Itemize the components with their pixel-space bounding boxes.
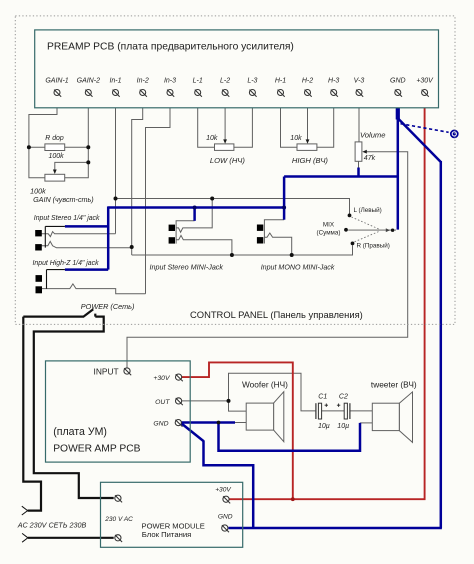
speaker Woofer horn: [274, 392, 284, 442]
arrow mix tie into blue wire: [348, 229, 396, 231]
power amp PCB box: [46, 361, 191, 462]
svg-text:HIGH (ВЧ): HIGH (ВЧ): [292, 156, 329, 165]
junction dot mini jack B on R line: [230, 253, 234, 257]
svg-text:+30V: +30V: [153, 375, 171, 382]
svg-text:AC 230V СЕТЬ 230В: AC 230V СЕТЬ 230В: [17, 520, 87, 529]
svg-text:C2: C2: [339, 393, 348, 400]
wire blue stereo jack riser: [107, 206, 110, 269]
junction dot amp GND branch: [217, 421, 221, 425]
svg-text:PREAMP PCB (плата предваритель: PREAMP PCB (плата предварительного усили…: [47, 42, 294, 53]
svg-text:10µ: 10µ: [318, 423, 330, 430]
terminal L-1: [195, 90, 202, 97]
switch blade POWER: [84, 309, 94, 316]
svg-text:+30V: +30V: [416, 78, 434, 85]
svg-text:47k: 47k: [364, 155, 376, 162]
svg-text:Input Stereo 1/4" jack: Input Stereo 1/4" jack: [34, 215, 100, 222]
terminal +30V amp: [176, 374, 183, 381]
wire blue right side vertical: [440, 161, 443, 528]
junction dot In-2 contact B: [130, 245, 134, 249]
wire AC switch left pole: [23, 316, 84, 318]
wire blue GND preamp vertical: [397, 95, 400, 230]
potentiometer GAIN 100k: [45, 174, 65, 181]
wire In-1 down: [115, 95, 117, 234]
svg-text:H-1: H-1: [275, 78, 286, 85]
arrow GAIN wiper: [53, 170, 57, 175]
svg-text:Input High-Z 1/4" jack: Input High-Z 1/4" jack: [33, 260, 100, 267]
svg-text:Блок Питания: Блок Питания: [142, 530, 192, 539]
node connector circle on panel edge: [451, 130, 458, 137]
wire L signal line to node L: [116, 199, 350, 215]
speaker tweeter horn: [399, 392, 412, 443]
svg-text:L-1: L-1: [193, 78, 203, 85]
wire capacitor link C1-C2: [322, 410, 345, 412]
wire GAIN-2 down to GAIN pot right lead: [65, 95, 89, 178]
terminal L-2: [222, 90, 229, 97]
potentiometer LOW 10k: [215, 144, 234, 151]
terminal H-2: [305, 90, 312, 97]
wire blue ground bus: [284, 175, 398, 178]
terminal 230V AC lower: [115, 535, 122, 542]
wire In-2 jog down: [132, 95, 143, 255]
wire blue module GND riser: [204, 441, 254, 528]
wire woofer minus lead: [235, 422, 246, 424]
svg-text:In-3: In-3: [164, 78, 176, 85]
wire blue stereo jack tip: [65, 225, 108, 228]
terminal +30V module: [223, 496, 230, 503]
svg-text:In-2: In-2: [137, 78, 149, 85]
svg-text:GND: GND: [390, 78, 406, 85]
svg-text:INPUT: INPUT: [94, 367, 119, 377]
terminal OUT amp: [176, 398, 183, 405]
terminal GND module: [222, 525, 229, 532]
wire AC mains lower conductor: [28, 537, 114, 539]
svg-text:CONTROL PANEL (Панель управле: CONTROL PANEL (Панель управления): [190, 309, 363, 320]
junction dot GAIN-2/R dop: [86, 145, 90, 149]
svg-text:LOW (НЧ): LOW (НЧ): [210, 156, 246, 165]
svg-text:L (Левый): L (Левый): [354, 206, 382, 214]
svg-text:OUT: OUT: [155, 399, 170, 406]
svg-text:R (Правый): R (Правый): [357, 242, 390, 250]
wire blue drop to tweeter return: [219, 423, 361, 451]
control panel dashed boundary box: [15, 16, 455, 325]
svg-text:tweeter (ВЧ): tweeter (ВЧ): [371, 379, 417, 389]
wire L-3 to LOW pot: [234, 95, 253, 147]
svg-text:100k: 100k: [49, 153, 65, 160]
wire L-2 wiper: [224, 95, 226, 141]
node L (Левый): [348, 214, 352, 218]
terminal GAIN-2: [85, 90, 92, 97]
node R (Правый): [351, 242, 355, 246]
wire R signal line to node R: [132, 245, 353, 255]
wire R dop right lead: [65, 146, 89, 148]
jack Input High-Z 1/4 body: [47, 270, 65, 289]
wire mini stereo jack contact B to R line: [176, 235, 232, 255]
preamp PCB box: [35, 30, 439, 108]
jack Input MONO MINI lugs: [257, 225, 263, 231]
junction dot GAIN-1/R dop: [27, 145, 31, 149]
junction dot GAIN wiper feed: [86, 160, 90, 164]
wire blue GND diagonal: [398, 118, 441, 162]
svg-text:H-2: H-2: [302, 78, 313, 85]
wire blue bottom ground run: [228, 527, 442, 530]
wire AC mains left conductor: [23, 317, 41, 511]
potentiometer HIGH 10k: [297, 144, 317, 151]
resistor R dop: [45, 144, 65, 151]
jack Input Stereo 1/4 body: [45, 226, 65, 247]
junction dot In-1/L line: [114, 197, 118, 201]
wire blue volume bottom drop: [357, 168, 360, 177]
svg-text:Woofer (НЧ): Woofer (НЧ): [242, 380, 288, 390]
mains break chevron lower: [22, 533, 28, 542]
svg-text:In-1: In-1: [109, 78, 121, 85]
wire In-3 jog down: [146, 95, 171, 294]
wire blue High-Z jack tip: [65, 268, 108, 271]
terminal H-1: [278, 90, 285, 97]
plus sign C2: [337, 404, 340, 407]
wire blue jack tip bus: [108, 206, 284, 209]
wire blue stub to mini stereo jack: [193, 208, 196, 221]
svg-text:Volume: Volume: [360, 130, 385, 139]
junction dot blue at mini jack stub: [193, 206, 197, 210]
svg-text:10µ: 10µ: [337, 423, 349, 430]
wire AC switch right pole to module: [34, 314, 114, 498]
dashed tie R to mix point: [355, 231, 380, 242]
terminal V-3: [356, 90, 363, 97]
wire V-3 to Volume pot: [358, 95, 360, 142]
svg-text:GND: GND: [153, 421, 168, 428]
wire Volume pot bottom lead: [358, 161, 360, 169]
terminal H-3: [331, 90, 338, 97]
svg-text:(плата УМ): (плата УМ): [53, 426, 107, 438]
wire blue vertical to MONO jack and bus: [283, 177, 286, 220]
terminal INPUT amp: [124, 368, 131, 375]
wire GAIN wiper feed: [55, 162, 89, 170]
terminal In-2: [140, 90, 147, 97]
svg-text:(Сумма): (Сумма): [317, 229, 341, 236]
wire red +30V preamp down right side: [229, 95, 424, 499]
svg-text:V-3: V-3: [354, 78, 365, 85]
terminal In-3: [167, 90, 174, 97]
wire GAIN-1 to GAIN pot bottom-left: [29, 95, 57, 178]
svg-text:POWER AMP PCB: POWER AMP PCB: [53, 444, 140, 455]
wire L-1 to LOW pot: [198, 95, 215, 147]
arrow LOW wiper: [223, 139, 227, 143]
dashed tie L to mix point: [352, 217, 380, 229]
terminal L-3: [249, 90, 256, 97]
wire blue amp GND to woofer: [182, 421, 236, 424]
junction dot MONO contact on R line: [290, 253, 294, 257]
wire Volume wiper to amp INPUT: [127, 152, 408, 368]
wire tweeter minus lead: [360, 422, 372, 424]
wire H-2 wiper: [307, 95, 309, 141]
wire blue amp GND diagonal: [182, 424, 205, 442]
svg-text:C1: C1: [318, 393, 327, 400]
svg-text:+30V: +30V: [215, 487, 231, 494]
wire blue dashed to external connector: [401, 124, 449, 133]
svg-text:10k: 10k: [206, 135, 218, 142]
svg-text:GND: GND: [218, 513, 233, 520]
power module box: [101, 482, 243, 547]
svg-text:R dop: R dop: [45, 135, 64, 142]
svg-text:10k: 10k: [290, 135, 302, 142]
capacitor C2 plates: [344, 403, 347, 419]
arrow HIGH wiper: [306, 139, 310, 143]
terminal GND amp: [175, 420, 182, 427]
junction dot red: [291, 497, 295, 501]
plus sign C1: [325, 404, 328, 407]
terminal GAIN-1: [54, 90, 61, 97]
wire High-Z jack contact: [42, 284, 146, 294]
wire C2 to tweeter: [350, 410, 372, 412]
arrow Volume wiper: [362, 150, 367, 154]
svg-text:Input MONO MINI-Jack: Input MONO MINI-Jack: [261, 263, 335, 271]
svg-text:L-3: L-3: [247, 78, 257, 85]
wire mini stereo jack contact A to L line: [176, 199, 212, 233]
jack Input Stereo MINI lugs: [169, 225, 175, 231]
wire OUT to woofer and crossover feed: [182, 373, 316, 411]
junction dot mini jack A on L line: [210, 197, 214, 201]
svg-text:MIX: MIX: [323, 221, 335, 228]
terminal In-1: [113, 90, 120, 97]
wire R dop left lead: [29, 146, 45, 148]
wire MONO jack contact to R line: [264, 233, 291, 255]
svg-text:GAIN (чувст-сть): GAIN (чувст-сть): [33, 195, 94, 204]
mains break chevron upper: [22, 506, 28, 515]
potentiometer Volume 47k: [355, 142, 362, 161]
svg-text:L-2: L-2: [220, 78, 230, 85]
wire mini stereo jack body feed: [176, 221, 195, 244]
wire H-1 to HIGH pot: [281, 95, 298, 147]
wire stereo jack contact B: [42, 241, 132, 247]
speaker tweeter box: [372, 403, 399, 430]
terminal +30V preamp: [422, 90, 429, 97]
wire MONO jack body feed: [264, 220, 284, 244]
wire H-3 to HIGH pot: [317, 95, 334, 147]
svg-text:GAIN-1: GAIN-1: [45, 78, 68, 85]
terminal 230V AC upper: [115, 495, 122, 502]
svg-text:Input Stereo MINI-Jack: Input Stereo MINI-Jack: [150, 262, 224, 271]
node MIX (Сумма): [344, 228, 348, 232]
junction dot OUT crossover: [227, 399, 231, 403]
svg-text:H-3: H-3: [328, 78, 339, 85]
speaker Woofer box: [246, 403, 273, 430]
junction dot blue at MONO stub: [282, 206, 286, 210]
wire red +30V amp feed: [182, 362, 293, 499]
svg-text:GAIN-2: GAIN-2: [77, 78, 100, 85]
wire stereo jack contact A: [42, 232, 116, 237]
capacitor C1 plates: [315, 403, 317, 419]
terminal GND preamp: [395, 90, 402, 97]
svg-text:POWER (Сеть): POWER (Сеть): [81, 302, 135, 311]
svg-text:230 V AC: 230 V AC: [104, 516, 133, 523]
